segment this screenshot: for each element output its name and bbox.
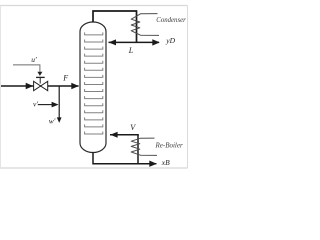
tray 7 [85, 75, 103, 78]
valve actuator bar [36, 76, 45, 78]
arrowhead v into drop line [52, 102, 59, 108]
tray 3 [85, 47, 103, 50]
tray 2 [85, 40, 103, 43]
tray 10 [85, 96, 103, 99]
frame right edge [187, 6, 189, 169]
arrowhead xB outward [149, 161, 157, 167]
arrowhead w downward [57, 117, 62, 123]
arrowhead feed inlet [26, 83, 34, 89]
frame bottom rule [0, 167, 188, 169]
tray 11 [85, 103, 103, 106]
arrowhead u' onto valve [37, 72, 42, 76]
wire: reflux / distillate line [109, 41, 160, 43]
wire: reboiler riser [137, 135, 139, 164]
tray 13 [85, 117, 103, 120]
tray 6 [85, 68, 103, 71]
svg-text:xB: xB [161, 158, 170, 167]
frame top rule [0, 5, 188, 7]
valve stem [39, 78, 41, 84]
wire: overhead vapour line [93, 11, 137, 42]
tray 15 [85, 132, 103, 135]
svg-text:w′: w′ [49, 116, 56, 125]
tray 9 [85, 89, 103, 92]
tray 14 [85, 124, 103, 127]
wire: v signal arrow [38, 104, 52, 106]
tray 1 [85, 32, 103, 35]
control valve body (bowtie) [34, 81, 48, 90]
svg-text:yD: yD [165, 36, 175, 45]
arrowhead yD outward [152, 39, 160, 45]
tray 5 [85, 61, 103, 64]
wire: bottoms line [93, 152, 156, 163]
svg-text:F: F [62, 74, 68, 83]
wire: u' signal line [13, 65, 40, 72]
svg-text:Re-Boiler: Re-Boiler [155, 141, 183, 149]
re-boiler coil [131, 138, 157, 155]
tray 12 [85, 110, 103, 113]
svg-text:Condenser: Condenser [156, 17, 186, 24]
distillation column shell [80, 22, 106, 153]
tray 4 [85, 54, 103, 57]
svg-text:u′: u′ [31, 55, 37, 64]
tray 8 [85, 82, 103, 85]
arrowhead L into column [109, 39, 116, 45]
arrowhead feed into column [71, 83, 79, 89]
wire: boilup vapour line V [110, 134, 139, 136]
arrowhead V into column [110, 132, 117, 138]
frame left edge [0, 6, 2, 169]
svg-text:v′: v′ [33, 99, 38, 108]
svg-text:L: L [128, 46, 134, 55]
condenser coil [131, 14, 159, 36]
wire: feed line [1, 85, 79, 87]
wire: w drop line from feed junction [58, 86, 60, 118]
